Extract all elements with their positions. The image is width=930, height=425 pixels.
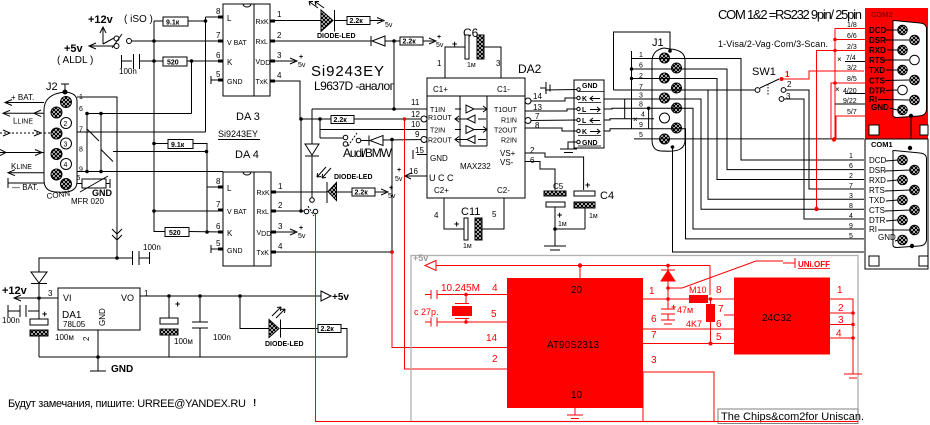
node L bus vertical bbox=[205, 17, 207, 132]
svg-text:4K7: 4K7 bbox=[686, 319, 702, 329]
J1 row 2 wire bbox=[630, 79, 864, 180]
svg-text:T1OUT: T1OUT bbox=[494, 107, 518, 114]
svg-text:1: 1 bbox=[277, 10, 282, 19]
svg-text:RXD: RXD bbox=[869, 46, 886, 55]
box isp outline bbox=[643, 372, 714, 422]
pin ticks DA3 bbox=[218, 17, 275, 81]
svg-text:RxL: RxL bbox=[256, 39, 269, 46]
svg-text:6: 6 bbox=[79, 106, 83, 113]
resistor 9.1k #2 bbox=[168, 140, 193, 150]
ground pin10 bbox=[567, 408, 583, 419]
wire T1IN vertical from diode bbox=[393, 41, 395, 109]
wire L dotted row bbox=[0, 132, 51, 134]
svg-text:Будут замечания, пишите: URREE: Будут замечания, пишите: URREE@YANDEX.RU bbox=[8, 398, 246, 410]
svg-text:5: 5 bbox=[849, 233, 853, 240]
resistor 2.2k mid bbox=[331, 116, 354, 125]
svg-text:VDD: VDD bbox=[257, 230, 272, 238]
svg-text:5v: 5v bbox=[395, 176, 403, 183]
svg-text:7: 7 bbox=[216, 200, 221, 209]
svg-text:C2-: C2- bbox=[497, 186, 510, 195]
wire red switch down rail bbox=[316, 214, 719, 422]
wire header gnd top bbox=[545, 89, 577, 92]
svg-text:TXD: TXD bbox=[869, 196, 885, 205]
svg-text:DSR: DSR bbox=[869, 36, 886, 45]
svg-text:V BAT: V BAT bbox=[227, 209, 247, 216]
svg-text:R1OUT: R1OUT bbox=[428, 115, 452, 122]
svg-text:4: 4 bbox=[64, 162, 68, 169]
svg-text:RxK: RxK bbox=[257, 190, 271, 197]
svg-text:R1IN: R1IN bbox=[501, 118, 517, 125]
wire header gnd bottom bbox=[560, 142, 577, 153]
ground symbol DA1 bbox=[90, 357, 106, 371]
pin 7 J2 bbox=[51, 128, 62, 139]
svg-text:24C32: 24C32 bbox=[762, 313, 792, 324]
svg-text:3: 3 bbox=[849, 193, 853, 200]
svg-text:4: 4 bbox=[434, 211, 439, 220]
svg-text:C2+: C2+ bbox=[434, 186, 449, 195]
svg-text:2.2к: 2.2к bbox=[350, 18, 364, 25]
svg-text:L: L bbox=[582, 118, 587, 125]
svg-text:8/5: 8/5 bbox=[847, 76, 857, 83]
node R1OUT red junction bbox=[403, 117, 407, 121]
svg-text:+: + bbox=[299, 54, 303, 61]
svg-text:J1: J1 bbox=[652, 37, 664, 49]
svg-text:1-Visa/2-Vag·Com/3-Scan.: 1-Visa/2-Vag·Com/3-Scan. bbox=[718, 39, 828, 49]
svg-text:!: ! bbox=[253, 398, 256, 409]
svg-text:CTS: CTS bbox=[869, 206, 885, 215]
svg-text:+: + bbox=[671, 302, 676, 312]
wire COM2 gnd to COM1 shell bbox=[910, 115, 912, 148]
svg-text:47м: 47м bbox=[677, 305, 693, 315]
node diode junction bbox=[392, 39, 396, 43]
svg-text:5v: 5v bbox=[298, 233, 306, 240]
svg-text:10.245M: 10.245M bbox=[441, 283, 480, 294]
header labels bbox=[582, 83, 598, 147]
node reset bbox=[666, 297, 670, 301]
wire J2 row8 long bbox=[113, 151, 207, 153]
capacitor 100n output bbox=[192, 296, 208, 357]
wire T2IN row bbox=[320, 129, 427, 131]
COM2 label stubs bbox=[878, 30, 909, 110]
svg-text:3: 3 bbox=[278, 222, 283, 231]
svg-text:MAX232: MAX232 bbox=[460, 162, 491, 171]
svg-text:R2OUT: R2OUT bbox=[428, 138, 452, 145]
svg-text:6/6: 6/6 bbox=[847, 33, 857, 40]
COM1 label stubs bbox=[878, 160, 910, 241]
COM1 bottom squares bbox=[869, 256, 879, 266]
wire TxK DA3 to R1OUT bbox=[275, 81, 427, 119]
ground tick DA4 bbox=[211, 245, 218, 253]
svg-text:6: 6 bbox=[216, 51, 221, 60]
svg-text:1: 1 bbox=[437, 59, 442, 68]
svg-text:78L05: 78L05 bbox=[63, 320, 86, 329]
svg-text:520: 520 bbox=[167, 60, 179, 67]
COM1 number labels bbox=[849, 153, 853, 240]
svg-text:— BAT.: — BAT. bbox=[12, 183, 39, 192]
COM1 pins bbox=[898, 155, 908, 165]
svg-text:+12v: +12v bbox=[2, 285, 28, 297]
svg-text:2: 2 bbox=[278, 201, 283, 210]
diode audi top bbox=[371, 36, 385, 46]
svg-text:5: 5 bbox=[77, 175, 81, 182]
ground symbol C5C4 bbox=[544, 229, 566, 250]
wire J2 pin1 to +12v feed bbox=[77, 97, 117, 258]
capacitor 100n #2 bbox=[117, 251, 150, 265]
svg-text:+: + bbox=[454, 219, 459, 229]
svg-text:2: 2 bbox=[492, 354, 498, 365]
svg-text:6: 6 bbox=[639, 63, 643, 70]
COM1 shell dots bbox=[908, 146, 912, 150]
svg-text:1: 1 bbox=[144, 289, 149, 298]
wire +BAT arrow bbox=[5, 100, 44, 106]
COM2 black wires 7/4 4/20 9/22 bbox=[835, 62, 865, 105]
connector COM1 D-sub bbox=[893, 151, 927, 248]
svg-text:2: 2 bbox=[277, 31, 282, 40]
svg-text:3: 3 bbox=[277, 51, 282, 60]
diode-led 3 bbox=[327, 182, 352, 203]
svg-text:C1-: C1- bbox=[497, 85, 510, 94]
svg-text:GND: GND bbox=[227, 79, 243, 86]
inner buffer box bbox=[460, 96, 487, 146]
J1 row 8 wire bbox=[604, 108, 864, 229]
svg-text:GND: GND bbox=[878, 233, 896, 242]
svg-text:8: 8 bbox=[79, 147, 83, 154]
svg-text:K: K bbox=[227, 58, 233, 67]
wire 9.1k1 left bbox=[154, 20, 163, 22]
svg-text:100n: 100n bbox=[213, 333, 231, 342]
svg-text:L: L bbox=[227, 184, 232, 193]
svg-text:1/8: 1/8 bbox=[847, 22, 857, 29]
svg-text:6: 6 bbox=[216, 222, 221, 231]
svg-text:1м: 1м bbox=[589, 213, 598, 220]
svg-text:4: 4 bbox=[277, 71, 282, 80]
J1 row 9 wire bbox=[604, 129, 864, 239]
svg-text:2.2к: 2.2к bbox=[321, 326, 335, 333]
wire VBAT switch to DA3 bbox=[132, 40, 224, 42]
shell wire loop J1 bbox=[614, 32, 671, 90]
svg-text:11: 11 bbox=[411, 98, 420, 107]
SW1 pos3 bbox=[779, 97, 784, 102]
wire 520-1 sides bbox=[154, 60, 223, 62]
wire RxL DA4 row bbox=[276, 210, 304, 212]
svg-text:100n: 100n bbox=[2, 316, 20, 325]
svg-text:M10: M10 bbox=[689, 285, 707, 295]
wire input to DA1 bbox=[39, 297, 58, 299]
svg-text:5v: 5v bbox=[298, 62, 306, 69]
svg-text:14: 14 bbox=[533, 92, 542, 101]
svg-text:100м: 100м bbox=[55, 333, 74, 342]
svg-text:4: 4 bbox=[492, 283, 498, 294]
svg-text:+5v: +5v bbox=[332, 292, 349, 303]
ground tick DA3 bbox=[211, 76, 218, 84]
svg-text:7: 7 bbox=[216, 31, 221, 40]
svg-text:1: 1 bbox=[639, 52, 643, 59]
J1 bottom drop bbox=[671, 145, 675, 149]
dashed detent bbox=[767, 84, 769, 95]
resistor 2.2k da4 bbox=[352, 188, 375, 197]
wire red bottom rail overlay bbox=[316, 421, 859, 423]
capacitor 100n input bbox=[8, 305, 39, 317]
svg-text:J2: J2 bbox=[46, 81, 58, 93]
wire Lline arrow bbox=[3, 110, 44, 117]
svg-text:+: + bbox=[437, 34, 441, 41]
svg-text:2.2к: 2.2к bbox=[403, 39, 417, 46]
svg-text:RI: RI bbox=[869, 225, 877, 234]
svg-text:VO: VO bbox=[121, 293, 134, 303]
pin bubbles left bbox=[421, 116, 427, 122]
resistor 2.2k top1 bbox=[347, 17, 370, 26]
svg-text:U C C: U C C bbox=[429, 173, 454, 183]
svg-text:5: 5 bbox=[716, 332, 722, 343]
svg-text:5: 5 bbox=[216, 239, 221, 248]
eeprom pin7 stub bbox=[724, 314, 734, 316]
header rows bbox=[577, 88, 580, 144]
pin 4 J2 bbox=[61, 159, 72, 170]
svg-text:RxL: RxL bbox=[257, 209, 270, 216]
svg-text:×: × bbox=[837, 55, 842, 64]
svg-text:2.2к: 2.2к bbox=[334, 117, 348, 124]
svg-text:L9637D -аналог: L9637D -аналог bbox=[314, 79, 395, 93]
svg-text:SW1: SW1 bbox=[752, 66, 776, 78]
wires 520-2 bbox=[154, 230, 223, 232]
svg-text:3/2: 3/2 bbox=[847, 65, 857, 72]
wire led loop return bbox=[341, 329, 347, 358]
svg-text:16: 16 bbox=[409, 167, 418, 176]
svg-text:9: 9 bbox=[79, 167, 83, 174]
led arrows bbox=[317, 167, 331, 178]
svg-text:RTS: RTS bbox=[869, 186, 885, 195]
svg-text:8: 8 bbox=[535, 121, 540, 130]
svg-text:R2IN: R2IN bbox=[501, 138, 517, 145]
SW1 common bbox=[755, 79, 779, 92]
buffer T1 bbox=[455, 105, 487, 113]
wire avr7 to eeprom5 bbox=[643, 343, 734, 345]
svg-text:c 27p.: c 27p. bbox=[414, 307, 439, 317]
svg-text:C11: C11 bbox=[461, 206, 480, 218]
svg-text:3: 3 bbox=[651, 355, 657, 366]
switch audi/bmw bbox=[320, 133, 369, 146]
wire K row arrows bbox=[0, 150, 44, 156]
svg-text:TxK: TxK bbox=[257, 250, 270, 257]
ground eeprom bbox=[844, 374, 862, 378]
svg-text:DA 3: DA 3 bbox=[236, 111, 260, 123]
wire uni.off diagonal bbox=[668, 261, 783, 288]
svg-text:GND: GND bbox=[871, 103, 889, 112]
svg-text:T2OUT: T2OUT bbox=[494, 128, 518, 135]
chip DA1 bbox=[58, 288, 140, 330]
svg-text:×: × bbox=[633, 115, 638, 124]
svg-text:DSR: DSR bbox=[869, 166, 886, 175]
wire pin20 drop bbox=[579, 266, 581, 279]
svg-text:DA 4: DA 4 bbox=[235, 149, 259, 161]
svg-text:CTS: CTS bbox=[869, 77, 886, 86]
svg-text:1: 1 bbox=[649, 286, 655, 297]
svg-text:K: K bbox=[582, 96, 587, 103]
svg-text:L: L bbox=[227, 14, 232, 23]
wire avr6 to eeprom6 bbox=[643, 328, 734, 330]
svg-text:9.1к: 9.1к bbox=[166, 20, 180, 27]
resistor 2.2k top2 bbox=[400, 37, 423, 46]
wire staircase row3 drop bbox=[708, 90, 864, 199]
svg-text:4: 4 bbox=[278, 242, 283, 251]
wire 9.1k1 right to DA3 L bbox=[188, 20, 206, 22]
shell ground J2 bbox=[61, 84, 69, 94]
svg-text:520: 520 bbox=[169, 230, 181, 237]
arrow +5v output bbox=[321, 291, 331, 301]
svg-text:VI: VI bbox=[63, 293, 72, 303]
svg-text:C1+: C1+ bbox=[433, 85, 448, 94]
wire red TxK to AVR pin14 bbox=[392, 252, 507, 348]
svg-text:5v: 5v bbox=[385, 22, 393, 29]
pin 6 J2 bbox=[51, 107, 62, 118]
svg-text:1м: 1м bbox=[467, 62, 476, 69]
svg-text:100n: 100n bbox=[119, 67, 137, 76]
wire Kline arrow bbox=[8, 170, 44, 176]
label Si9243EY underlined bbox=[218, 129, 260, 140]
svg-text:14: 14 bbox=[486, 333, 498, 344]
svg-text:7/4: 7/4 bbox=[846, 55, 856, 62]
resistor 520 #1 bbox=[163, 57, 187, 67]
svg-text:4: 4 bbox=[849, 213, 853, 220]
wire chevron shield drop bbox=[112, 195, 122, 256]
svg-text:7: 7 bbox=[651, 330, 657, 341]
J1 row 6 wire bbox=[630, 69, 864, 170]
pin bubbles right bbox=[525, 98, 531, 104]
svg-text:5: 5 bbox=[216, 70, 221, 79]
connector J1 body bbox=[652, 48, 685, 151]
wire DA3 L pin bbox=[206, 16, 224, 18]
wire header k2 bbox=[525, 128, 577, 131]
J1 row 4 stub bbox=[604, 119, 654, 120]
COM2 red wires bbox=[835, 29, 865, 140]
svg-text:GND: GND bbox=[227, 248, 243, 255]
wire C5 C4 ground bbox=[555, 228, 585, 230]
pin 9 J2 bbox=[51, 169, 62, 180]
pin 1 J2 bbox=[61, 97, 72, 108]
buffer T2 bbox=[455, 126, 487, 134]
pin ticks DA4 bbox=[218, 187, 276, 252]
svg-text:12: 12 bbox=[411, 110, 420, 119]
svg-text:8: 8 bbox=[639, 102, 643, 109]
svg-text:1м: 1м bbox=[558, 221, 567, 228]
svg-text:+: + bbox=[397, 167, 401, 174]
svg-text:1: 1 bbox=[278, 182, 283, 191]
node K junction bbox=[190, 59, 194, 63]
wire red R1OUT to AVR pin2 bbox=[405, 119, 508, 369]
svg-text:7: 7 bbox=[718, 304, 724, 315]
svg-text:+: + bbox=[299, 225, 303, 232]
COM2 bottom squares bbox=[869, 125, 879, 135]
svg-text:15: 15 bbox=[415, 146, 424, 155]
svg-text:DTR: DTR bbox=[869, 216, 886, 225]
J1 number column bbox=[631, 51, 633, 129]
svg-text:2/3: 2/3 bbox=[847, 44, 857, 51]
svg-text:100м: 100м bbox=[174, 337, 193, 346]
svg-text:10: 10 bbox=[411, 120, 420, 129]
arrow +12v left bbox=[14, 295, 39, 301]
svg-text:+: + bbox=[389, 185, 393, 192]
ground rail DA1 bbox=[39, 356, 347, 358]
wire DA1 gnd down bbox=[97, 330, 99, 357]
svg-text:9: 9 bbox=[849, 223, 853, 230]
svg-text:DA2: DA2 bbox=[518, 62, 542, 76]
wires 9.1k2 bbox=[154, 144, 207, 233]
arrow Vdd3 DA4 to +5v bbox=[276, 229, 297, 235]
pin 15 GND bbox=[413, 150, 427, 159]
svg-text:5: 5 bbox=[492, 210, 497, 219]
svg-text:COM2: COM2 bbox=[871, 10, 893, 19]
buffer R2 bbox=[455, 136, 486, 144]
node T2IN branch bbox=[318, 117, 322, 121]
wire R1OUT drop to switch bbox=[300, 119, 302, 211]
resistor 520 #2 bbox=[165, 228, 189, 238]
svg-text:+: + bbox=[452, 39, 457, 49]
crystal cap lower bbox=[425, 318, 507, 327]
wire to +12v diode bbox=[39, 258, 117, 272]
svg-text:3: 3 bbox=[786, 92, 791, 101]
svg-text:6: 6 bbox=[651, 314, 657, 325]
diode red bbox=[661, 266, 675, 310]
diode audi2 bbox=[369, 136, 427, 146]
jumper row8 to row9 bbox=[648, 108, 650, 129]
svg-text:3: 3 bbox=[496, 59, 501, 68]
COM2 pins bbox=[898, 25, 908, 35]
svg-text:GND: GND bbox=[111, 364, 133, 375]
svg-text:Si9243EY: Si9243EY bbox=[218, 129, 258, 139]
svg-text:DCD: DCD bbox=[869, 26, 887, 35]
svg-text:L: L bbox=[582, 107, 587, 114]
wire DA4 L pin bbox=[207, 186, 223, 188]
svg-text:2: 2 bbox=[82, 336, 91, 341]
led arrows bbox=[272, 307, 285, 318]
J1 pins bbox=[660, 53, 670, 63]
svg-text:2: 2 bbox=[787, 80, 792, 89]
capacitor 100m electrolytic input bbox=[30, 298, 48, 357]
wire RxK DA3 row bbox=[275, 20, 319, 22]
ground symbol MAX top bbox=[540, 82, 550, 94]
svg-text:9.1к: 9.1к bbox=[171, 142, 185, 149]
wire J2 row9 to DA4 top bbox=[77, 171, 223, 173]
svg-text:RXD: RXD bbox=[869, 176, 886, 185]
svg-text:6: 6 bbox=[530, 156, 535, 165]
svg-text:3: 3 bbox=[48, 289, 53, 298]
svg-text:2: 2 bbox=[849, 173, 853, 180]
COM1 pin labels bbox=[869, 156, 896, 242]
svg-text:9: 9 bbox=[415, 130, 420, 139]
diode-led 1 bbox=[275, 10, 347, 32]
svg-text:+ BAT.: + BAT. bbox=[11, 93, 34, 102]
wire DA4 VBAT pin bbox=[154, 210, 223, 212]
wire T1IN drop chain bbox=[311, 109, 313, 144]
svg-text:+5v: +5v bbox=[413, 253, 428, 263]
arrow Vdd3 DA3 to +5v bbox=[275, 58, 297, 64]
wire VS+ to C4 bbox=[525, 153, 584, 190]
svg-text:COM1: COM1 bbox=[871, 140, 893, 149]
crystal cap upper bbox=[425, 290, 507, 299]
svg-text:GND: GND bbox=[582, 83, 598, 90]
connector COM2 D-sub bbox=[893, 21, 927, 118]
switch arm J2 upper bbox=[87, 129, 99, 141]
svg-text:VDD: VDD bbox=[256, 59, 271, 67]
resistor MFR 020 bbox=[77, 176, 110, 192]
svg-text:8: 8 bbox=[849, 203, 853, 210]
crystal xtal bbox=[452, 295, 472, 323]
svg-text:2: 2 bbox=[64, 121, 68, 128]
svg-text:8: 8 bbox=[216, 7, 221, 16]
J1 row 1 wire bbox=[632, 59, 865, 161]
svg-text:3: 3 bbox=[639, 93, 643, 100]
buffer R1 bbox=[455, 115, 486, 123]
